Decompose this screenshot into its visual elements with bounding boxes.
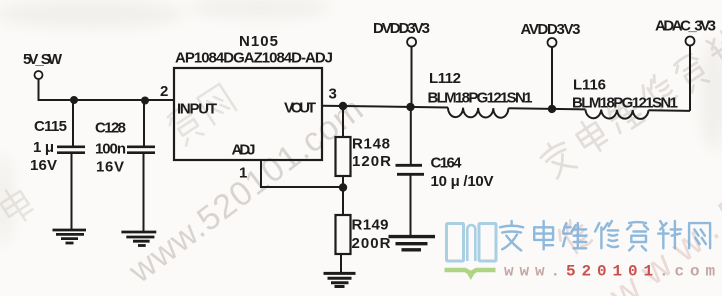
logo book icon right page [479, 224, 496, 262]
svg-text:AVDD3V3: AVDD3V3 [521, 21, 581, 38]
svg-text:R148: R148 [352, 136, 390, 153]
logo book icon left page [447, 224, 464, 262]
junction AVDD node [548, 105, 557, 114]
svg-text:L112: L112 [429, 70, 461, 87]
wire between coils [508, 108, 585, 109]
logo 520101 bottom right [445, 221, 722, 281]
terminal ADAC_3V3 [686, 37, 695, 46]
svg-text:C164: C164 [431, 155, 463, 172]
wire C164 to ground [410, 176, 412, 236]
ground R149 [324, 273, 356, 286]
svg-text:www.520101.com: www.520101.com [504, 263, 721, 281]
wire VOUT to rail [322, 106, 448, 108]
wire C128 branch [143, 101, 145, 146]
regulator U N105 box [174, 68, 322, 160]
svg-text:VOUT: VOUT [284, 100, 316, 117]
wire VOUT junction to R148 [342, 106, 344, 137]
svg-text:DVDD3V3: DVDD3V3 [373, 20, 430, 37]
resistor R148 [336, 137, 351, 176]
wire R149 to ground [340, 254, 342, 272]
svg-text:R149: R149 [352, 217, 389, 234]
svg-text:INPUT: INPUT [177, 101, 217, 118]
svg-text:ADAC_3V3: ADAC_3V3 [655, 18, 716, 35]
logo char dian [534, 221, 553, 249]
inductor L112 coil [448, 107, 509, 117]
resistor R149 [336, 215, 351, 254]
svg-text:16V: 16V [96, 159, 124, 176]
logo char xiu [595, 221, 618, 248]
svg-text:1 μ: 1 μ [33, 139, 54, 156]
terminal DVDD3V3 [407, 38, 416, 47]
logo text CJK brush [500, 221, 710, 250]
wire DVDD3V3 down [411, 47, 413, 108]
logo char zi [627, 222, 648, 250]
watermark fragment left edge [0, 184, 35, 226]
svg-text:3: 3 [329, 86, 337, 103]
wire coil to ADAC [648, 109, 689, 112]
svg-text:5V_SW: 5V_SW [23, 51, 63, 68]
svg-text:16V: 16V [30, 157, 57, 174]
ground C115 [53, 230, 87, 243]
junction VOUT node [339, 102, 348, 111]
wire R148 to ADJ node [342, 176, 344, 186]
inductor L116 coil [585, 109, 648, 119]
logo ribbon tail [467, 274, 475, 281]
svg-text:120R: 120R [352, 153, 391, 170]
svg-text:BLM18PG121SN1: BLM18PG121SN1 [572, 95, 678, 112]
watermark CJK diagonal right [537, 7, 722, 181]
svg-text:C128: C128 [95, 120, 126, 137]
capacitor C164 [396, 165, 425, 174]
wire C115 branch [72, 100, 74, 146]
wire C128 to ground [143, 154, 145, 231]
svg-text:100n: 100n [95, 141, 126, 158]
svg-text:1: 1 [239, 165, 247, 182]
terminal AVDD3V3 [548, 38, 557, 47]
watermark small CJK fragment near IC [165, 83, 238, 147]
logo char jia [500, 221, 523, 250]
svg-text:N105: N105 [239, 33, 278, 50]
wire ADJ node to R149 [342, 188, 344, 215]
capacitor C115 [57, 147, 85, 153]
svg-text:BLM18PG121SN1: BLM18PG121SN1 [428, 90, 533, 107]
wire AVDD3V3 down [551, 47, 553, 109]
junction at C128 [141, 97, 149, 105]
ground C164 [389, 237, 436, 250]
wire ADAC_3V3 down [689, 46, 691, 111]
svg-text:AP1084DGAZ1084D-ADJ: AP1084DGAZ1084D-ADJ [175, 50, 333, 67]
wire DVDD junction to C164 [410, 107, 412, 164]
svg-text:ADJ: ADJ [232, 142, 256, 159]
svg-text:200R: 200R [352, 235, 391, 252]
wire ADJ pin [261, 160, 343, 187]
logo char wang [689, 223, 710, 248]
wire 5V_SW down and input rail [39, 79, 175, 100]
capacitor C128 [127, 147, 155, 153]
logo book icon spine [467, 225, 475, 261]
logo char liao [658, 221, 681, 248]
wire C115 to ground [71, 154, 73, 229]
junction DVDD node [406, 103, 415, 112]
svg-text:2: 2 [160, 83, 168, 100]
ground C128 [121, 232, 156, 246]
junction ADJ node [339, 183, 347, 191]
logo char wei [563, 223, 586, 248]
logo green ribbon [445, 270, 496, 273]
junction at C115 [70, 96, 78, 104]
output rail group (slight scan skew) [322, 102, 690, 121]
svg-text:C115: C115 [34, 118, 67, 135]
terminal 5V_SW [35, 71, 43, 79]
svg-text:10 μ /10V: 10 μ /10V [431, 173, 494, 190]
svg-text:L116: L116 [573, 77, 606, 94]
